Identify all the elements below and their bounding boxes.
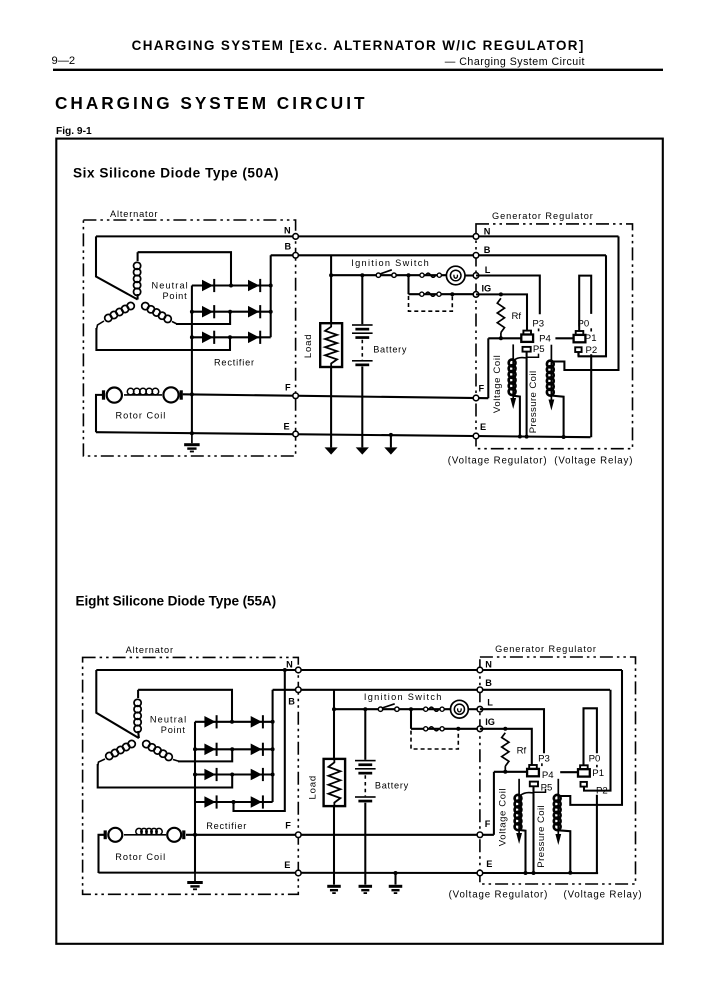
svg-text:E: E — [486, 859, 492, 869]
svg-text:P5: P5 — [533, 344, 545, 355]
svg-text:Rectifier: Rectifier — [214, 358, 255, 368]
svg-text:P3: P3 — [538, 753, 550, 764]
svg-text:Rotor Coil: Rotor Coil — [116, 410, 167, 420]
svg-text:CHARGING SYSTEM CIRCUIT: CHARGING SYSTEM CIRCUIT — [55, 93, 368, 113]
svg-text:Battery: Battery — [373, 344, 407, 354]
svg-text:Load: Load — [303, 334, 314, 359]
svg-text:(Voltage Relay): (Voltage Relay) — [564, 890, 643, 901]
svg-text:N: N — [286, 659, 293, 669]
svg-text:Ignition Switch: Ignition Switch — [351, 258, 430, 268]
svg-text:Rotor Coil: Rotor Coil — [115, 852, 166, 862]
svg-text:Voltage Coil: Voltage Coil — [492, 355, 503, 413]
svg-text:P5: P5 — [541, 782, 553, 793]
svg-text:E: E — [480, 422, 486, 432]
svg-text:Load: Load — [307, 775, 318, 800]
svg-text:Rectifier: Rectifier — [206, 821, 247, 831]
svg-text:IG: IG — [485, 717, 495, 727]
svg-text:Generator Regulator: Generator Regulator — [492, 211, 594, 221]
svg-text:Pressure Coil: Pressure Coil — [536, 805, 547, 868]
svg-text:F: F — [485, 819, 491, 829]
svg-text:P4: P4 — [542, 770, 554, 781]
svg-text:B: B — [484, 245, 491, 255]
svg-text:L: L — [487, 698, 493, 708]
svg-text:Rf: Rf — [512, 311, 522, 322]
svg-text:F: F — [285, 383, 291, 393]
svg-text:N: N — [284, 226, 291, 236]
svg-text:P4: P4 — [539, 333, 551, 344]
svg-text:Eight Silicone Diode Type (55A: Eight Silicone Diode Type (55A) — [76, 594, 277, 609]
svg-text:B: B — [485, 678, 492, 688]
svg-text:Generator Regulator: Generator Regulator — [495, 644, 597, 654]
svg-text:B: B — [288, 697, 295, 707]
svg-text:Battery: Battery — [375, 781, 409, 791]
svg-text:(Voltage Regulator): (Voltage Regulator) — [448, 456, 548, 467]
svg-text:N: N — [484, 226, 491, 236]
svg-text:(Voltage Relay): (Voltage Relay) — [554, 456, 633, 467]
svg-text:E: E — [284, 421, 290, 431]
svg-text:9—2: 9—2 — [52, 55, 76, 67]
svg-text:N: N — [485, 660, 492, 670]
svg-text:Pressure Coil: Pressure Coil — [528, 371, 539, 434]
svg-text:Point: Point — [161, 725, 186, 735]
svg-text:P3: P3 — [532, 318, 544, 329]
svg-text:Fig. 9-1: Fig. 9-1 — [56, 126, 92, 137]
svg-text:L: L — [485, 265, 491, 275]
svg-text:P2: P2 — [596, 786, 608, 797]
svg-text:Neutral: Neutral — [150, 714, 187, 724]
svg-text:IG: IG — [482, 284, 492, 294]
svg-text:Neutral: Neutral — [152, 280, 189, 290]
svg-text:Alternator: Alternator — [110, 209, 158, 219]
svg-text:— Charging System Circuit: — Charging System Circuit — [445, 56, 585, 68]
svg-text:P0: P0 — [578, 318, 590, 329]
svg-text:P2: P2 — [586, 345, 598, 356]
svg-text:Point: Point — [163, 291, 188, 301]
svg-text:Voltage Coil: Voltage Coil — [497, 788, 508, 846]
svg-text:P1: P1 — [585, 333, 597, 344]
svg-text:CHARGING SYSTEM [Exc. ALTER: CHARGING SYSTEM [Exc. ALTERNATOR W/IC RE… — [132, 38, 585, 53]
svg-text:Alternator: Alternator — [126, 645, 174, 655]
svg-text:(Voltage Regulator): (Voltage Regulator) — [449, 890, 549, 901]
svg-text:P1: P1 — [592, 768, 604, 779]
svg-text:Ignition Switch: Ignition Switch — [364, 692, 443, 702]
svg-text:P0: P0 — [589, 753, 601, 764]
svg-text:E: E — [284, 860, 290, 870]
svg-text:F: F — [285, 820, 291, 830]
svg-text:B: B — [285, 242, 292, 252]
svg-text:Rf: Rf — [517, 745, 527, 756]
svg-text:Six Silicone Diode Type (50A): Six Silicone Diode Type (50A) — [73, 166, 279, 181]
svg-text:F: F — [479, 383, 485, 393]
